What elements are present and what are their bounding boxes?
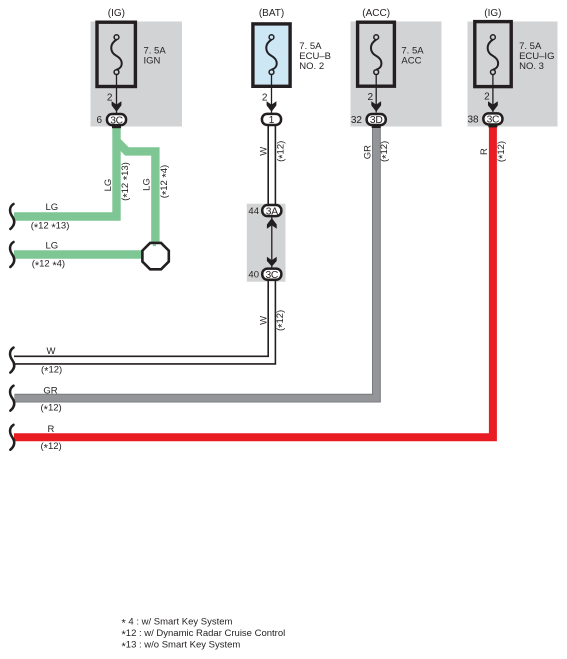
wire continuation squiggle LG (12,4)	[10, 242, 14, 267]
wire W double line from ECU-B fuse to connector 3A	[267, 126, 269, 206]
svg-text:LG: LG	[103, 179, 114, 192]
connector arrow F2	[267, 101, 277, 112]
wire LG from IGN fuse down and left	[14, 125, 117, 217]
connector 1 ellipse F2	[262, 114, 281, 125]
svg-text:2: 2	[367, 92, 373, 103]
svg-text:3D: 3D	[370, 115, 383, 126]
svg-text:IGN: IGN	[144, 55, 161, 66]
connector arrow up into 3A	[267, 218, 277, 229]
fuse F2 7.5A ECU-B NO.2	[253, 24, 290, 114]
wire tip inside octagon	[153, 245, 156, 247]
connector 3A ellipse (pin 44)	[262, 205, 281, 216]
node octagon junction	[142, 243, 168, 269]
wire continuation squiggle W	[10, 348, 14, 373]
junction block background (ECU-IG fuse)	[468, 22, 558, 127]
svg-text:(BAT): (BAT)	[259, 8, 284, 19]
svg-text:LG: LG	[142, 178, 153, 191]
connector arrow down into 3C	[267, 257, 277, 267]
junction block background (ACC fuse)	[351, 22, 442, 127]
fuse F3 7.5A ACC	[358, 22, 395, 112]
svg-text:R: R	[479, 148, 490, 155]
svg-text:3C: 3C	[110, 115, 123, 126]
svg-text:38: 38	[467, 114, 479, 125]
svg-text:(ACC): (ACC)	[362, 8, 390, 19]
svg-text:(IG): (IG)	[484, 8, 501, 19]
wire LG horizontal to octagon junction	[14, 250, 142, 258]
wire continuation squiggle R	[10, 425, 14, 450]
fuse F4 7.5A ECU-IG NO.3	[475, 22, 511, 112]
connector arrow F3	[371, 101, 381, 112]
svg-text:3C: 3C	[266, 270, 279, 281]
wire stub below 3C connector F1	[112, 126, 121, 129]
svg-text:32: 32	[351, 115, 363, 126]
wire continuation squiggle LG (12,13)	[10, 204, 14, 229]
junction connector background (44/40 block)	[247, 204, 286, 282]
svg-text:W: W	[47, 346, 56, 357]
svg-text:44: 44	[248, 206, 259, 217]
wire stub below 3C connector F4	[488, 125, 497, 128]
svg-text:3C: 3C	[487, 115, 500, 126]
fuse F1 7.5A IGN	[97, 22, 135, 113]
wire single line between 3A and 3C connectors	[271, 217, 273, 268]
connector arrow F4	[488, 101, 498, 112]
svg-text:6: 6	[96, 115, 102, 126]
svg-text:LG: LG	[46, 240, 59, 251]
svg-text:ACC: ACC	[401, 55, 421, 66]
wire R from ECU-IG fuse down and left	[14, 125, 493, 437]
wire LG branch diagonal to second vertical	[117, 141, 156, 242]
svg-text:LG: LG	[46, 202, 59, 213]
junction block background (IGN fuse)	[91, 22, 183, 127]
svg-text:W: W	[259, 147, 270, 156]
svg-text:GR: GR	[43, 386, 57, 397]
svg-text:GR: GR	[362, 145, 373, 159]
svg-text:NO. 2: NO. 2	[299, 61, 324, 72]
svg-text:1: 1	[269, 115, 275, 126]
wire continuation squiggle GR	[10, 386, 14, 411]
svg-text:2: 2	[484, 92, 490, 103]
wire GR from ACC fuse down and left	[14, 125, 376, 398]
svg-text:NO. 3: NO. 3	[519, 61, 544, 72]
connector 3C ellipse F1	[107, 114, 126, 125]
connector 3D ellipse F3	[367, 114, 386, 125]
svg-text:40: 40	[248, 270, 259, 281]
connector 3C ellipse (pin 40)	[262, 269, 281, 280]
wire stub below 3D connector F3	[372, 125, 381, 128]
svg-text:(IG): (IG)	[108, 8, 125, 19]
svg-text:3A: 3A	[266, 206, 278, 217]
svg-text:W: W	[258, 316, 269, 325]
wire W double line from connector 40 down then left	[14, 280, 268, 356]
svg-text:R: R	[48, 424, 55, 435]
connector 3C ellipse F4	[483, 113, 502, 124]
connector arrow F1	[112, 101, 122, 112]
